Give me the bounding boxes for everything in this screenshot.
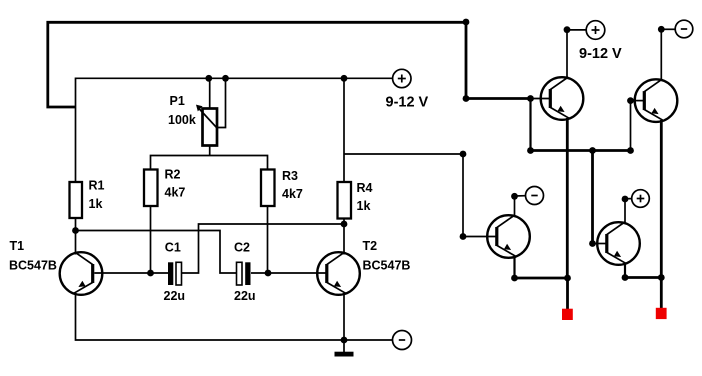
- transistor T1 BC547B (mirrored, base right): [9, 239, 102, 295]
- svg-text:R3: R3: [282, 169, 298, 183]
- wire: T2 collector to node: [343, 224, 345, 255]
- svg-text:1k: 1k: [89, 197, 103, 211]
- junction: R1 bottom / T1 collector node: [72, 227, 79, 234]
- wire: R1 bottom lead: [75, 218, 77, 231]
- junction: Q4 emitter corner: [511, 275, 518, 282]
- svg-text:22u: 22u: [234, 289, 256, 303]
- wire: T1 collector to node: [75, 231, 77, 255]
- transistor Q6 (upper right driver): [635, 79, 678, 122]
- junction: R3 bottom on T2 base wire: [265, 270, 272, 277]
- wire: R4 top lead from rail: [343, 78, 345, 182]
- svg-text:9-12 V: 9-12 V: [579, 46, 622, 62]
- wire: Q6 collector up: [660, 29, 662, 81]
- junction: Q6 collector terminal node: [658, 26, 665, 33]
- wire: T1 collector node across and down to C2 left plate: [76, 231, 237, 274]
- wire: C2 right plate to T2 base: [251, 272, 326, 274]
- junction: R2 bottom on T1 base wire: [147, 270, 154, 277]
- lamp/LED 2 (red square): [656, 308, 667, 319]
- lamp/LED 1 (red square): [562, 309, 573, 320]
- wire: Q3 emitter down to output node: [566, 118, 569, 278]
- junction: P1 top on rail: [205, 75, 212, 82]
- wire: to + terminal top: [567, 29, 586, 31]
- wire: down to lamp 1: [566, 278, 569, 310]
- wire: Q3 base stub: [531, 98, 550, 100]
- wire: emitters join to lamp 1: [515, 277, 568, 280]
- terminal: +9-12V supply (left): [393, 69, 411, 87]
- transistor Q4 (lower left driver): [487, 215, 530, 258]
- svg-text:100k: 100k: [168, 113, 196, 127]
- potentiometer P1 100k: [196, 78, 226, 155]
- junction: Q3 base node: [527, 95, 534, 102]
- resistor R1 1k: [70, 179, 105, 219]
- wire: Q5 base stub: [593, 243, 607, 245]
- wire: R3 bottom lead to T2 base node: [267, 206, 269, 273]
- wire: bus corner up to Q6 base: [630, 101, 632, 151]
- wire: thick positive supply path from left rail joint to Q3 base node: [48, 22, 531, 107]
- junction: ground node: [341, 337, 348, 344]
- wire: supply rail with left drop to R1: [76, 78, 345, 182]
- junction: bus tee to Q5 base: [589, 147, 596, 154]
- svg-text:R1: R1: [89, 179, 105, 193]
- transistor Q5 (lower right driver): [597, 222, 640, 265]
- svg-text:P1: P1: [170, 94, 185, 108]
- transistor Q3 (upper left driver): [541, 77, 584, 120]
- wire: R4 bottom lead: [343, 219, 345, 224]
- wire: Q3 base node down to thick bus: [529, 99, 531, 151]
- junction: thick bus left corner: [527, 147, 534, 154]
- svg-text:1k: 1k: [357, 199, 371, 213]
- svg-text:BC547B: BC547B: [363, 258, 411, 272]
- svg-text:22u: 22u: [164, 289, 186, 303]
- svg-text:BC547B: BC547B: [9, 258, 57, 272]
- svg-text:R2: R2: [165, 168, 181, 182]
- svg-text:4k7: 4k7: [282, 187, 303, 201]
- junction: Q4 collector terminal node: [511, 193, 518, 200]
- wire: Q4 emitter down: [513, 256, 515, 278]
- junction: thick wire corner top right: [463, 19, 470, 26]
- junction: lamp 1 node: [564, 275, 571, 282]
- resistor R2 4k7: [144, 168, 185, 206]
- svg-text:9-12 V: 9-12 V: [386, 94, 429, 110]
- junction: Q6 base: [627, 97, 634, 104]
- wire: to + terminal mid: [625, 198, 632, 200]
- wire: bus down to Q5 base: [591, 151, 594, 244]
- junction: T2 collector / R4 node: [341, 221, 348, 228]
- wire: Q3 collector up: [566, 30, 568, 79]
- wire: Q6 emitter down to output node: [660, 120, 663, 278]
- wire: rail to + terminal: [344, 77, 393, 79]
- terminal: + 9-12V (top right): [586, 21, 605, 40]
- junction: Q3 collector terminal node: [564, 26, 571, 33]
- wire: P1 bottom distribution to R2 and R3 tops: [151, 156, 268, 170]
- wire: Q5 emitter down: [624, 263, 626, 278]
- svg-text:T1: T1: [10, 239, 25, 253]
- junction: P1 wiper on rail: [222, 75, 229, 82]
- junction: Q5 emitter corner: [622, 274, 629, 281]
- terminal: - (middle): [526, 187, 544, 205]
- transistor T2 BC547B: [317, 239, 410, 295]
- wire: down to lamp 2: [660, 278, 663, 309]
- junction: corner at x463 top: [460, 151, 467, 158]
- wire: Q4 collector up: [514, 196, 516, 217]
- wire: R2 bottom lead to T1 base node: [150, 206, 152, 273]
- junction: bus right corner: [627, 147, 634, 154]
- svg-text:R4: R4: [357, 181, 373, 195]
- terminal: - (bottom): [393, 331, 412, 350]
- wire: T2 emitter down to ground rail: [343, 293, 345, 340]
- resistor R4 1k: [338, 181, 373, 219]
- svg-text:C2: C2: [234, 241, 250, 255]
- wire: thick bus: [531, 149, 631, 152]
- wire: emitters join to lamp 2: [625, 276, 661, 279]
- wire: node line from R4 column to Q4 base: [344, 154, 497, 237]
- junction: thick wire corner at Q3 base level: [463, 95, 470, 102]
- wire: C1 right plate up and across to T2 collector node: [182, 224, 344, 273]
- wire: Q5 collector up: [624, 199, 626, 224]
- wire: to - terminal top right: [661, 28, 675, 30]
- terminal: - (top right): [675, 20, 693, 38]
- junction: Q5 collector terminal node: [622, 196, 629, 203]
- wire: to - terminal mid: [515, 195, 526, 197]
- ground: [335, 340, 354, 357]
- wire: T1 base to C1 left plate: [94, 272, 168, 274]
- resistor R3 4k7: [261, 169, 303, 206]
- capacitor C2 22u: [234, 241, 256, 303]
- junction: rail / R4 / terminal: [341, 75, 348, 82]
- junction: lamp 2 node: [658, 274, 665, 281]
- svg-text:4k7: 4k7: [165, 186, 186, 200]
- terminal: + (middle): [632, 190, 650, 208]
- svg-text:T2: T2: [363, 239, 378, 253]
- wire: Q6 base stub: [631, 100, 645, 102]
- wire: T1 emitter down and ground rail to - terminal: [76, 293, 393, 340]
- junction: corner at x463 bottom (Q4 base): [460, 233, 467, 240]
- junction: Q5 base: [589, 240, 596, 247]
- svg-text:C1: C1: [165, 241, 181, 255]
- capacitor C1 22u: [164, 241, 186, 303]
